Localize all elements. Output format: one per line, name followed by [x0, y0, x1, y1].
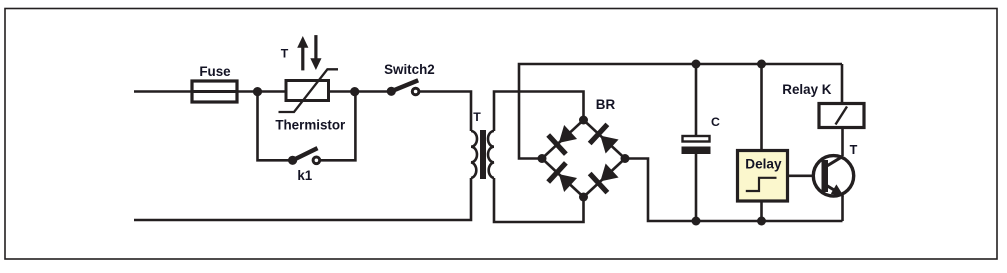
- svg-text:Thermistor: Thermistor: [275, 118, 346, 133]
- svg-text:Switch2: Switch2: [384, 62, 435, 77]
- wire: fuse to node A: [237, 90, 258, 93]
- transistor base bar: [822, 160, 829, 192]
- diode D3 (top-right, cathode at top node): [590, 124, 621, 156]
- transformer T primary coil: [471, 131, 477, 178]
- switch Switch2: [387, 80, 419, 96]
- bridge edge top-left: [542, 120, 584, 159]
- bridge node bottom: [579, 193, 588, 202]
- transformer T secondary coil: [488, 131, 494, 178]
- wire: bridge right node to bottom rail: [625, 159, 843, 222]
- bridge node left: [538, 154, 547, 163]
- svg-text:Fuse: Fuse: [199, 64, 230, 79]
- junction dot top rail / capacitor: [692, 60, 701, 69]
- bridge edge bottom-left: [542, 159, 584, 198]
- node B junction dot: [350, 87, 359, 96]
- transistor T (NPN): [813, 156, 853, 197]
- wire: k1 branch right: [320, 92, 355, 161]
- delay unit: [738, 151, 788, 202]
- diode D2 (bottom-left, cathode at left node): [548, 163, 579, 195]
- switch k1: [288, 148, 320, 165]
- svg-text:T: T: [850, 143, 858, 157]
- wire: secondary top to bridge top node: [494, 92, 584, 132]
- junction dot bottom rail / delay: [757, 217, 766, 226]
- wire: primary bottom + AC bottom-left lead: [134, 178, 471, 220]
- svg-text:k1: k1: [297, 168, 312, 183]
- wire: emitter to bottom rail: [841, 195, 844, 221]
- wire: node B to Switch2: [355, 90, 391, 93]
- wire: AC top-left lead: [134, 90, 192, 93]
- step waveform inside delay: [746, 178, 777, 191]
- wire: secondary bottom to bridge bottom node: [494, 178, 584, 222]
- relay K coil: [819, 104, 864, 128]
- junction dot bottom rail / capacitor: [692, 217, 701, 226]
- transistor collector: [826, 156, 844, 167]
- wire: k1 branch left: [258, 92, 291, 161]
- svg-text:C: C: [711, 115, 720, 129]
- wire: relay top lead: [841, 64, 844, 104]
- wire: delay top lead: [760, 64, 763, 151]
- node A junction dot: [253, 87, 262, 96]
- transformer core: [480, 130, 486, 179]
- svg-text:Delay: Delay: [745, 157, 782, 172]
- diode D4 (bottom-right, cathode at bottom node): [590, 161, 621, 193]
- wire: capacitor bottom lead: [695, 154, 698, 221]
- wire: delay to transistor base: [788, 175, 823, 178]
- svg-text:Relay K: Relay K: [782, 82, 831, 97]
- arrow up (temperature): [297, 36, 308, 70]
- wire: delay bottom lead: [760, 201, 763, 221]
- svg-text:T: T: [473, 110, 481, 124]
- bridge node top: [579, 116, 588, 125]
- svg-text:T: T: [281, 46, 289, 60]
- thermistor: [279, 69, 339, 112]
- fuse Fuse: [192, 81, 237, 102]
- junction dot top rail / delay: [757, 60, 766, 69]
- wire: Switch2 to transformer primary top: [420, 92, 472, 132]
- wire: top rail from bridge left node: [519, 64, 842, 159]
- bridge node right: [621, 154, 630, 163]
- transistor emitter with arrow: [826, 185, 839, 193]
- bridge rectifier BR: [538, 116, 630, 202]
- arrow down (temperature): [310, 35, 321, 70]
- diode D1 (top-left, cathode at left node): [548, 122, 579, 154]
- bridge edge bottom-right: [584, 159, 626, 198]
- capacitor C: [682, 136, 711, 154]
- wire: node A to thermistor: [258, 90, 287, 93]
- wire: capacitor top lead: [695, 64, 698, 135]
- bridge edge top-right: [584, 120, 626, 159]
- wire: relay to collector: [841, 128, 844, 157]
- wire: thermistor to node B: [329, 90, 355, 93]
- svg-text:BR: BR: [596, 97, 616, 112]
